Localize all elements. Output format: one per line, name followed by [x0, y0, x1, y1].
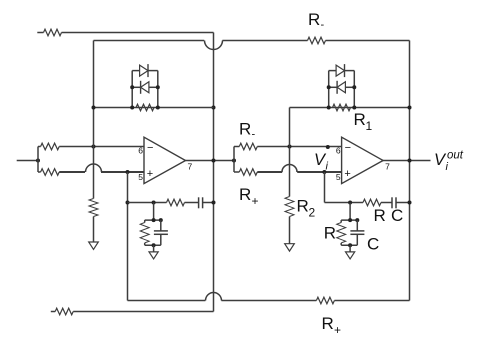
svg-text:C: C	[367, 235, 379, 254]
resistor coupling bottom-left	[55, 308, 73, 315]
svg-text:−: −	[345, 142, 351, 154]
wire input split left	[37, 147, 39, 173]
wire top cross to R- top	[222, 40, 307, 42]
wire R- to pin6	[257, 146, 341, 148]
svg-text:+: +	[252, 194, 259, 208]
label R- mid	[239, 120, 256, 141]
node RC bottom right	[348, 243, 352, 247]
wire res to cap	[185, 202, 199, 204]
node C-output junction	[212, 159, 216, 163]
node B (left op-amp non-inverting input)	[126, 170, 130, 174]
label parallel C	[367, 235, 379, 254]
label R+ mid	[239, 185, 259, 208]
resistor parallel left cell	[140, 220, 149, 245]
wire RC tap down	[153, 203, 155, 221]
wire RC tap down right	[349, 203, 351, 221]
label R2	[297, 197, 316, 220]
label R1	[354, 110, 373, 133]
node output net junction	[408, 159, 412, 163]
wire R+ bottom to right output net	[334, 300, 409, 302]
wire diode box left vertical right cell	[328, 71, 330, 108]
svg-text:−: −	[147, 142, 153, 154]
wire bottom-left stub	[51, 311, 55, 313]
node diode mid right	[156, 85, 160, 89]
diode D4 right cell	[337, 81, 345, 94]
wire series RC right cell	[325, 202, 364, 204]
resistor R- mid	[234, 143, 257, 150]
wire R+ mid to hop	[257, 171, 282, 173]
wire top diode cathode	[148, 70, 158, 72]
resistor coupling top-left	[44, 29, 62, 36]
svg-text:7: 7	[385, 161, 390, 171]
ground R2	[285, 244, 295, 251]
wire R- top to right output net	[326, 40, 410, 42]
node input left	[36, 159, 40, 163]
node right input	[232, 159, 236, 163]
wire right feedback bottom	[290, 107, 410, 109]
svg-text:R: R	[374, 206, 386, 225]
wire net A corner to top cross wire	[94, 40, 205, 42]
wire mid diode cathode	[132, 86, 140, 88]
svg-text:R: R	[322, 314, 334, 333]
resistor parallel R right	[337, 220, 346, 245]
node RC tap right	[348, 201, 352, 205]
resistor feedback left cell	[136, 104, 154, 111]
svg-text:out: out	[447, 150, 464, 162]
resistor R- top	[308, 37, 326, 44]
node A (left op-amp inverting input)	[92, 145, 96, 149]
svg-text:i: i	[326, 161, 329, 173]
svg-text:7: 7	[188, 161, 193, 171]
resistor R+ bottom	[316, 297, 334, 304]
wire to ground stub	[153, 245, 155, 252]
resistor to ground net A	[89, 199, 98, 217]
wire hop over net D	[282, 165, 297, 173]
wire net D vertical	[289, 108, 291, 197]
wire mid diode anode right	[345, 86, 354, 88]
wire hop over net C bottom	[206, 293, 222, 301]
ground net A	[89, 242, 99, 249]
node R1 left	[327, 106, 331, 110]
wire mid diode cathode right	[329, 86, 337, 88]
capacitor series left cell	[199, 197, 203, 208]
label series C	[391, 206, 403, 225]
wire input stub left	[17, 160, 38, 162]
node A-FB junction	[92, 106, 96, 110]
wire top-left to net C	[62, 32, 214, 34]
capacitor series C right	[392, 197, 396, 208]
resistor R1	[333, 104, 351, 111]
capacitor parallel left cell	[154, 220, 168, 245]
svg-text:R: R	[308, 10, 320, 29]
diode D1 left cell	[140, 64, 148, 77]
node C-FB junction	[212, 106, 216, 110]
wire top diode anode right	[329, 70, 336, 72]
label R+ bottom	[322, 314, 342, 337]
node right fb to output net	[408, 106, 412, 110]
resistor R2	[285, 197, 294, 217]
diode D2 left cell	[141, 81, 149, 94]
svg-text:R: R	[324, 224, 336, 243]
svg-text:6: 6	[336, 146, 341, 156]
node output-RC junction	[408, 201, 412, 205]
ground right RC	[346, 252, 355, 259]
wire to node A	[59, 146, 144, 148]
node rail tap left	[152, 218, 156, 222]
svg-text:-: -	[321, 19, 325, 31]
node B-RC junction	[126, 201, 130, 205]
label parallel R	[324, 224, 336, 243]
node fb-res right	[156, 106, 160, 110]
svg-text:+: +	[344, 168, 350, 180]
wire parallel RC top rail right	[341, 219, 357, 221]
node fb-res left	[130, 106, 134, 110]
wire parallel RC bottom rail left	[145, 244, 161, 246]
wire res to cap right	[381, 202, 392, 204]
wire right output net vertical	[409, 41, 411, 301]
wire U2 output	[383, 160, 430, 162]
node rail tap right	[348, 218, 352, 222]
op-amp U1	[138, 137, 192, 183]
wire hop to pin 5 right	[297, 171, 341, 173]
wire top-left stub	[37, 32, 43, 34]
wire lower-left to hop	[59, 171, 85, 173]
wire bottom-left to net C	[73, 311, 213, 313]
svg-text:R: R	[354, 110, 366, 129]
svg-text:C: C	[391, 206, 403, 225]
svg-text:+: +	[147, 168, 153, 180]
label series R	[374, 206, 386, 225]
svg-text:5: 5	[336, 172, 341, 182]
label R- top	[308, 10, 325, 31]
wire diode box right vertical right cell	[353, 71, 355, 108]
wire left feedback bottom	[94, 107, 214, 109]
node rail cap left	[159, 218, 163, 222]
wire hop under at top	[205, 41, 223, 50]
wire hop over net A vertical	[86, 164, 102, 172]
svg-text:+: +	[334, 323, 341, 337]
node E (right non-inverting input)	[322, 170, 326, 174]
resistor input lower-left	[38, 169, 59, 176]
wire net C vertical (left output net)	[213, 33, 215, 312]
wire net E vertical	[324, 172, 326, 203]
svg-text:R: R	[239, 120, 251, 139]
wire R2 to ground	[289, 217, 291, 244]
wire bottom net B corner	[128, 300, 206, 302]
wire U1 output	[186, 160, 235, 162]
resistor R+ mid	[234, 169, 257, 176]
wire right input split	[233, 147, 235, 173]
node diode mid right right-cell	[352, 85, 356, 89]
capacitor parallel C right	[350, 220, 364, 245]
node diode mid left	[130, 85, 134, 89]
node rail cap right	[355, 218, 359, 222]
resistor input upper-left	[38, 143, 59, 150]
svg-text:2: 2	[309, 206, 316, 220]
wire hop to pin 5	[101, 171, 144, 173]
node R1 right	[352, 106, 356, 110]
wire res to ground	[93, 217, 95, 243]
wire net A vertical	[93, 41, 95, 199]
wire cap to output net	[396, 202, 410, 204]
svg-text:R: R	[239, 185, 251, 204]
svg-text:1: 1	[366, 119, 373, 133]
wire parallel RC bottom rail right	[341, 244, 357, 246]
svg-text:5: 5	[138, 172, 143, 182]
node RC tap left	[152, 201, 156, 205]
wire diode box left vertical	[131, 71, 133, 108]
wire top diode anode	[132, 70, 139, 72]
svg-text:-: -	[252, 129, 256, 141]
wire to ground stub right	[349, 245, 351, 252]
wire net B vertical	[127, 172, 129, 301]
svg-text:i: i	[446, 161, 449, 173]
label Vi	[314, 151, 329, 173]
label Vout	[434, 150, 464, 174]
wire bottom cross to R+ bottom	[221, 300, 316, 302]
wire top diode cathode right	[345, 70, 355, 72]
wire diode box right vertical	[157, 71, 159, 108]
node C-RC junction	[212, 201, 216, 205]
diode D3 right cell	[336, 64, 344, 77]
node Vi marker	[326, 145, 330, 149]
wire cap to net C	[203, 202, 214, 204]
wire parallel RC top rail left	[145, 219, 161, 221]
node diode mid left right-cell	[327, 85, 331, 89]
resistor series R right	[363, 199, 381, 206]
resistor series left cell	[167, 199, 185, 206]
wire mid diode anode	[149, 86, 158, 88]
svg-text:6: 6	[138, 146, 143, 156]
wire series RC left cell	[128, 202, 167, 204]
svg-text:R: R	[297, 197, 309, 216]
op-amp U2	[336, 137, 390, 183]
node net D upper	[288, 145, 292, 149]
node RC bottom left	[152, 243, 156, 247]
ground left RC	[149, 252, 158, 259]
